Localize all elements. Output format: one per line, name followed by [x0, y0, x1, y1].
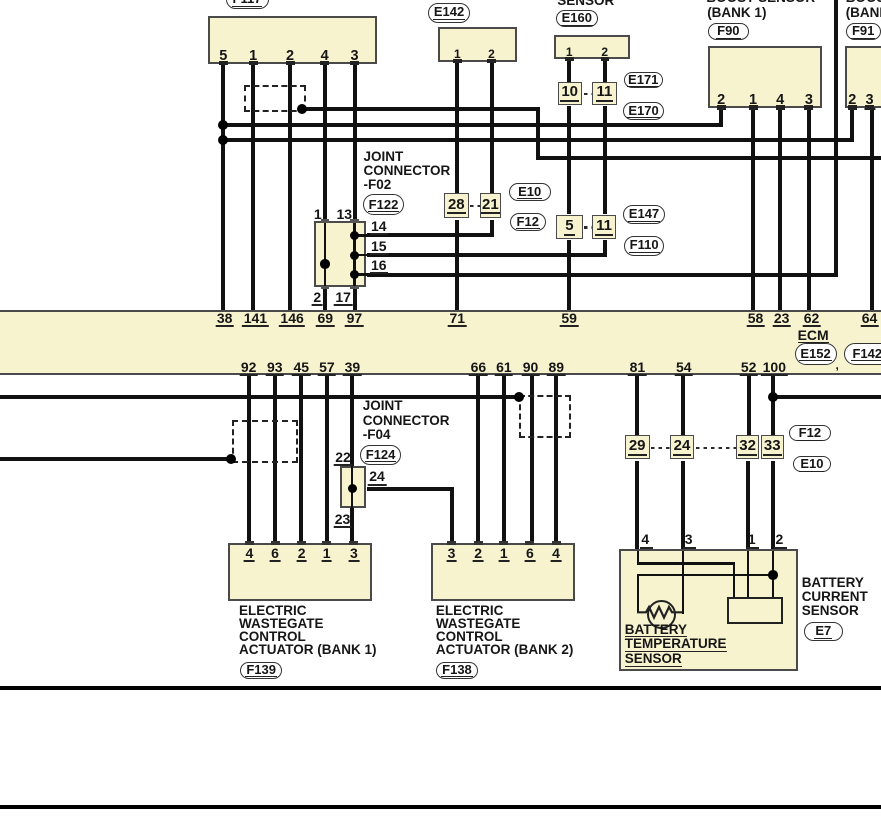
wire E142 pin1 to splice 28	[455, 62, 459, 193]
F117 pin 5	[219, 49, 227, 64]
splice box 21	[480, 193, 501, 219]
ECM terminal 66 (bottom row)	[469, 360, 488, 376]
wire ECM 66 to actuator2 pin2	[476, 375, 480, 542]
battery sensor pin 3	[685, 532, 693, 546]
wire jog vertical segment	[536, 107, 540, 159]
boost sensor F90 box	[708, 46, 821, 109]
junction node at pin2 column	[768, 570, 778, 580]
splice box 32	[736, 435, 759, 459]
F02 internal junction node pin14	[350, 231, 360, 241]
splice box 33	[761, 435, 784, 459]
shield drain junction node at dashed box 92/93	[226, 454, 236, 464]
ECM connector strip	[0, 310, 881, 374]
wire ECM 61 to actuator2 pin1	[502, 375, 506, 542]
ECM terminal 146 (top row)	[279, 311, 305, 327]
wire ECM 93 to actuator1 pin6	[273, 375, 277, 542]
splice box 10	[558, 82, 582, 105]
ECM terminal 81 (bottom row)	[628, 360, 647, 376]
wire junction to F91 pin2 horizontal	[223, 138, 854, 142]
battery current sensor block	[727, 597, 783, 625]
ECM terminal 69 (top row)	[316, 311, 335, 327]
connector F117 label oval F117 (clipped at top)	[226, 0, 269, 9]
actuator1 pin 4	[245, 541, 254, 545]
F91 pin 2	[848, 93, 856, 108]
E160 pin 2	[601, 46, 608, 58]
wire ECM 100 upper segment	[771, 375, 775, 435]
splice box 11 lower	[592, 215, 616, 239]
shield dashed box around wires 90 and 89	[519, 395, 571, 438]
electric wastegate actuator bank1 box	[228, 543, 372, 602]
connector label oval F12	[510, 213, 546, 232]
connector E160 label oval E160	[556, 10, 599, 28]
wire F91 pin3 to ECM terminal 64	[870, 108, 874, 310]
ECM terminal 97 (top row)	[345, 311, 364, 327]
ECM terminal 62 (top row)	[802, 311, 821, 327]
wire pin1 down to current sensor	[747, 551, 749, 597]
splice box 28	[444, 193, 469, 219]
wire pin4 inside battery box	[637, 551, 639, 565]
F02 pin 17 label	[334, 290, 353, 306]
F90 pin 4	[776, 93, 784, 108]
battery pin2 underline	[774, 547, 787, 549]
F90 pin 3	[805, 93, 813, 108]
actuator1 pin 3	[349, 541, 358, 545]
junction node on wire 38 upper	[218, 120, 228, 130]
wire F02 pin1 to pin2 inside joint connector	[324, 221, 326, 288]
ECM terminal 39 (bottom row)	[343, 360, 362, 376]
wire F02 pin13 to pin17 inside joint connector	[353, 221, 355, 288]
shield drain wire to right	[302, 107, 540, 111]
connector F90 label oval F90	[708, 23, 750, 40]
wire F117 pin1 to ECM terminal 141	[251, 65, 255, 310]
splice link 24 to 32	[696, 447, 736, 449]
wire ECM 45 to actuator1 pin2	[299, 375, 303, 542]
connector E142 label oval E142	[428, 3, 470, 23]
connector label oval E10	[509, 183, 551, 202]
ECM terminal 61 (bottom row)	[495, 360, 514, 376]
splice box 11 upper	[592, 82, 618, 105]
joint connector F02 name text	[364, 150, 451, 193]
actuator1 pin 6	[271, 541, 280, 545]
splice box 5	[556, 215, 583, 239]
ECM terminal 89 (bottom row)	[547, 360, 566, 376]
E142 pin 1	[454, 48, 461, 60]
splice link 5 to 11	[584, 226, 592, 228]
wire splice 5 to ECM terminal 59	[567, 240, 571, 310]
connector F91 label oval F91	[846, 23, 881, 40]
electric wastegate actuator bank2 box	[431, 543, 575, 602]
ECM terminal 23 (top row)	[772, 311, 791, 327]
connector F117 box	[208, 16, 377, 64]
F02 internal junction node pin16	[350, 270, 360, 280]
F02 pin 1 label	[314, 207, 322, 221]
ECM terminal 141 (top row)	[242, 311, 268, 327]
F02 pin 15 label	[370, 239, 389, 255]
wire splice 11 upper to splice 11 lower	[603, 106, 607, 214]
battery pin3 underline	[683, 547, 696, 549]
wire down to current sensor top	[733, 564, 735, 597]
actuator bank1 name text	[239, 605, 377, 657]
ECM terminal 57 (bottom row)	[318, 360, 337, 376]
joint connector F02 label oval F122	[363, 194, 404, 215]
ECM label oval F142 (clipped)	[844, 343, 881, 365]
F02 row 14 wire inside box	[355, 234, 368, 236]
wire F117 pin3 to joint connector F02 pin13	[353, 65, 357, 221]
joint connector F04 name text	[363, 399, 450, 442]
F02 pin 16 label	[370, 258, 389, 274]
wire splice 11 lower down to F02 row 15	[603, 240, 607, 257]
section divider thick line lower	[0, 805, 881, 810]
wire ECM 81 to splice 29	[635, 375, 639, 435]
wire horizontal to right edge at y158	[536, 156, 881, 160]
connector label oval E10 lower	[793, 456, 830, 473]
F04 pin 24 label	[368, 469, 387, 485]
joint connector F04 box	[340, 466, 366, 507]
F117 pin 1	[249, 49, 257, 64]
wire splice 24 to battery sensor pin3	[681, 461, 685, 551]
wire from top edge between boost sensors	[834, 0, 838, 277]
connector label oval E147	[623, 205, 664, 224]
wire F04 pin24 down to actuator2 pin3	[450, 489, 454, 543]
wire ECM 39 to joint connector F04 pin22	[350, 375, 354, 466]
connector label oval E170	[623, 102, 664, 120]
ECM terminal 52 (bottom row)	[739, 360, 758, 376]
ECM terminal 64 (top row)	[860, 311, 879, 327]
F117 pin 4	[321, 49, 329, 64]
F02 pin 13 tick	[350, 219, 359, 223]
ECM terminal 90 (bottom row)	[521, 360, 540, 376]
wire junction 100 to right edge	[773, 395, 881, 399]
joint connector F04 label oval F124	[360, 445, 402, 465]
wire splice 28 to ECM terminal 71	[455, 220, 459, 311]
boost sensor bank1 header text (clipped)	[706, 0, 815, 3]
shield dashed box around F117 wires 1 and 2	[244, 85, 307, 112]
wire horizontal to pin2 node	[637, 574, 773, 576]
joint connector F02 box	[314, 221, 366, 287]
actuator1 pin 2	[297, 541, 306, 545]
connector label oval F110	[624, 236, 664, 256]
ECM name text	[798, 329, 829, 343]
shield drain junction node at dashed box 90/89	[514, 392, 524, 402]
wire E160 pin1 to splice 10	[567, 59, 571, 82]
wire splice 32 to battery sensor pin1	[746, 461, 750, 551]
wire thermistor riser	[637, 574, 639, 614]
ECM terminal 58 (top row)	[746, 311, 765, 327]
wire E142 pin2 to splice 21	[490, 62, 494, 193]
shield dashed box around wires 92 and 93	[232, 420, 297, 463]
wire splice 29 to battery sensor pin4	[635, 461, 639, 551]
wire pin3 down to thermistor	[682, 551, 684, 614]
section divider thick line upper	[0, 686, 881, 691]
F02 internal junction node on pin1-2 wire	[320, 259, 330, 269]
wire ECM 57 to actuator1 pin1	[325, 375, 329, 542]
F02 pin 2 tick	[321, 286, 330, 290]
wire ECM 89 to actuator2 pin4	[554, 375, 558, 542]
F02 pin 1 tick	[321, 219, 330, 223]
E142 pin 2	[488, 48, 495, 60]
F04 internal junction node	[348, 484, 358, 494]
wire F04 pin22 to pin23 inside joint connector	[351, 466, 353, 508]
battery pin4 underline	[640, 547, 653, 549]
wire F04 pin24 horizontal	[367, 487, 455, 491]
F02 row 15 wire to splice 11 column	[367, 253, 607, 257]
sensor E160 header text (clipped)	[557, 0, 614, 8]
splice link 28 to 21	[470, 205, 480, 207]
wire F91 pin2 vertical stub	[850, 108, 854, 142]
actuator2 pin 6	[525, 541, 534, 545]
F04 pin 22 label	[334, 450, 353, 466]
splice link 10 to 11	[584, 93, 592, 95]
wire F117 pin2 to ECM terminal 146	[288, 65, 292, 310]
actuator2 pin 2	[474, 541, 483, 545]
wire splice 33 to battery sensor pin2	[771, 461, 775, 551]
ECM terminal 93 (bottom row)	[266, 360, 285, 376]
F02 pin 17 tick	[350, 286, 359, 290]
F90 pin 2	[717, 93, 725, 108]
splice box 29	[625, 435, 650, 459]
wire junction to F90 pin2 horizontal	[223, 123, 723, 127]
wire F90 pin3 to ECM terminal 62	[807, 108, 811, 310]
F117 pin 2	[286, 49, 294, 64]
wire splice 10 to splice 5	[567, 106, 571, 214]
F02 row 16 wire to top-edge wire column	[367, 273, 837, 277]
wire F04 pin23 to actuator1 pin3	[350, 508, 354, 542]
wire pin4 horizontal to current sensor	[637, 562, 736, 564]
battery sensor pin 2	[775, 532, 783, 546]
shield drain junction node	[297, 104, 307, 114]
boost sensor bank2 header text (clipped)	[846, 0, 881, 3]
F02 row 15 wire inside box	[355, 254, 368, 256]
actuator2 pin 3	[447, 541, 456, 545]
shield drain wire from left edge y396	[0, 395, 519, 399]
F02 pin 2 label	[312, 290, 323, 306]
actuator bank1 label oval F139	[240, 662, 282, 679]
battery sensor pin 4	[641, 532, 649, 546]
wire F117 pin4 to joint connector F02 pin1	[323, 65, 327, 221]
wire E160 pin2 to splice 11 upper	[603, 59, 607, 82]
battery pin1 underline	[746, 547, 759, 549]
ECM terminal 45 (bottom row)	[292, 360, 311, 376]
wire ECM 52 to splice 32	[747, 375, 751, 435]
wire F90 pin4 to ECM terminal 23	[778, 108, 782, 310]
F02 pin 14 label	[370, 219, 389, 235]
actuator bank2 label oval F138	[436, 662, 478, 679]
F91 pin 3	[864, 93, 875, 110]
splice box 24	[670, 435, 694, 459]
ECM terminal 100 (bottom row)	[761, 360, 787, 376]
wire F02 pin2 to ECM terminal 69	[323, 288, 327, 311]
battery temperature sensor name text	[625, 623, 727, 667]
wire F90 pin1 to ECM terminal 58	[751, 108, 755, 310]
comma between ECM labels	[836, 359, 839, 371]
connector E160 box	[554, 35, 631, 60]
ECM terminal 59 (top row)	[560, 311, 579, 327]
wire F02 pin17 to ECM terminal 97	[353, 288, 357, 311]
wire splice 21 down to F02 row 14	[490, 220, 494, 238]
ECM terminal 38 (top row)	[215, 311, 234, 327]
F02 row 14 wire to splice 21 column	[367, 233, 493, 237]
ECM terminal 54 (bottom row)	[675, 360, 694, 376]
thermistor circle	[647, 600, 676, 629]
battery current sensor label oval E7	[804, 622, 843, 640]
wire F117 pin5 to ECM terminal 38	[221, 65, 225, 310]
boost sensor bank1 header text BANK 1	[707, 6, 766, 19]
actuator2 pin 1	[499, 541, 508, 545]
battery sensor pin 1	[748, 532, 756, 546]
wire pin2 down to current sensor	[772, 551, 774, 597]
boost sensor bank2 header text BANK 2 (clipped)	[846, 6, 881, 19]
F90 pin 1	[749, 93, 757, 108]
ECM terminal 92 (bottom row)	[239, 360, 258, 376]
actuator2 pin 4	[552, 541, 561, 545]
thermistor resistor zigzag	[637, 600, 682, 625]
F91 clipped pin fragment	[877, 95, 880, 108]
wire ECM 92 to actuator1 pin4	[247, 375, 251, 542]
battery sensor assembly box	[619, 549, 799, 671]
actuator1 pin 1	[322, 541, 331, 545]
F02 internal junction node pin15	[350, 251, 360, 261]
battery current sensor name text	[802, 576, 868, 618]
wire F90 pin2 vertical stub	[719, 108, 723, 127]
connector label oval F12 lower	[789, 425, 830, 441]
F04 pin 23 label	[333, 512, 352, 528]
junction node on wire 100	[768, 392, 778, 402]
wire ECM 90 to actuator2 pin6	[530, 375, 534, 542]
actuator bank2 name text	[436, 605, 574, 657]
ECM label oval E152	[795, 343, 837, 365]
F02 row 16 wire inside box	[355, 273, 368, 275]
wire ECM 54 to splice 24	[681, 375, 685, 435]
shield drain wire from left edge y459	[0, 457, 231, 461]
ECM terminal 71 (top row)	[448, 311, 467, 327]
F117 pin 3	[350, 49, 358, 64]
junction node on wire 38 lower	[218, 135, 228, 145]
connector label oval E171	[624, 72, 663, 89]
E160 pin 1	[566, 46, 573, 58]
F02 pin 13 label	[337, 207, 353, 221]
connector E142 box	[438, 27, 517, 62]
boost sensor F91 box (clipped at right)	[845, 46, 881, 109]
splice link 29 to 24	[651, 447, 670, 449]
